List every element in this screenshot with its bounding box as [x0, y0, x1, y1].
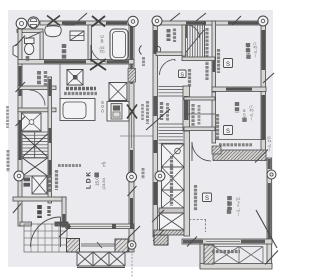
deck edge rail between pillars — [81, 242, 115, 248]
wall: stairs right wall — [48, 77, 52, 203]
deck lattice fence — [77, 252, 125, 268]
S box hall + fire alarm text — [179, 70, 187, 78]
paper (light gray scan background) — [8, 10, 273, 267]
toilet — [25, 38, 35, 55]
loop mark on 2F left wall — [154, 46, 160, 52]
text: クローゼット vertical lower closet — [170, 156, 173, 206]
wall: hall bottom wall — [13, 197, 66, 201]
door arc: bathroom — [91, 45, 108, 62]
column circle on 2F left wall — [155, 171, 165, 181]
text: クローゼット vertical — [205, 28, 208, 80]
brace tick below circle right wall — [128, 186, 137, 196]
kitchen zone boundary line — [59, 64, 61, 99]
washing machine pan — [22, 113, 42, 131]
dimension connector line between plans — [120, 135, 153, 137]
column circle on 1F right wall — [127, 172, 137, 182]
stairs X overlays — [23, 134, 48, 176]
bay window nub left wall — [13, 44, 18, 58]
wall: 2F top wall — [153, 21, 265, 25]
balcony bottom wall — [200, 264, 272, 270]
balcony X pattern — [214, 247, 263, 264]
washbasin oval (corner sink) — [45, 26, 61, 37]
wall: room1 left wall — [212, 21, 216, 92]
svg-text:): ) — [255, 53, 256, 57]
column circle top-left 2F — [152, 16, 162, 26]
text: 床下収納庫(床下点検口) 2 lines — [66, 87, 96, 90]
text: バルコニー — [212, 250, 240, 253]
svg-text:S: S — [226, 62, 230, 68]
porch tile grid — [24, 224, 67, 252]
text: UB (1616) — [100, 34, 105, 53]
svg-text:): ) — [238, 212, 239, 216]
vanity unit — [70, 31, 84, 41]
bathtub — [110, 29, 128, 60]
text: hall label over stairwell — [160, 102, 163, 120]
balcony hatched pillar — [204, 245, 214, 264]
dashed property line bottom — [131, 250, 133, 278]
deck pillar left — [67, 239, 80, 253]
svg-text:16): 16) — [100, 49, 105, 53]
2F stairs upper (vertical treads) — [186, 25, 204, 57]
wall: laundry lower wall — [18, 86, 56, 90]
text: 洋室 4.5帖 (7.45m2) room2 — [235, 102, 239, 113]
column circle deck right — [128, 241, 136, 249]
text: 玄関ホール (1.66m2) two cols — [48, 175, 52, 193]
column circle right wall 2F — [267, 170, 276, 179]
svg-text:(24.84: (24.84 — [101, 177, 106, 189]
window X mark on bath top wall — [92, 16, 105, 27]
deck pillar right — [115, 239, 128, 252]
text: 納戸 (1.77m2) — [167, 29, 171, 41]
wall: genkan bottom wall — [20, 222, 32, 226]
svg-text:S: S — [226, 129, 230, 135]
room2: fire alarm text + S box — [216, 114, 219, 139]
svg-text:): ) — [269, 147, 270, 151]
window X mark on bath bottom wall — [90, 59, 106, 70]
wall: nando right — [182, 25, 186, 56]
kitchen counter with sink — [60, 99, 95, 121]
long diagonal over right wall — [256, 210, 277, 248]
text: 玄関 dark — [37, 205, 42, 218]
large X box (pantry/void) — [109, 83, 127, 101]
hose bib squiggle outside right wall — [139, 46, 141, 55]
entrance door arc — [60, 217, 62, 247]
2F stairwell treads — [159, 86, 184, 143]
window X mark over top wall (laundry) — [47, 16, 60, 26]
text: 洋室 4.5帖 (7.45m2) room1 — [246, 43, 250, 54]
closet X box upper — [159, 144, 184, 213]
text: クローゼット horizontal — [219, 143, 252, 146]
wall: nando bottom — [156, 52, 186, 56]
text: 洋室 7.0帖 (11.59m2) room3 — [227, 196, 232, 210]
wall: stairs right / closet divider — [204, 21, 206, 57]
stairs 1F — [23, 132, 48, 158]
room3: fire alarm + S box — [194, 185, 197, 211]
wall: closet bottom hatched — [213, 150, 266, 161]
brace ticks 2F — [152, 13, 274, 241]
wall: hall top (below stairs) — [182, 57, 215, 61]
svg-text:B: B — [100, 39, 103, 44]
balcony left wall — [200, 244, 204, 268]
wall: genkan right wall — [62, 197, 66, 227]
wall: 2F right outer wall lower — [267, 158, 272, 268]
door arc closet lower — [192, 142, 211, 161]
tiny text left of 2F nando — [142, 57, 145, 66]
column circle top-right 2F — [258, 16, 268, 26]
text: 洗面所 (vertical blobs) — [62, 44, 67, 60]
svg-text:LDK: LDK — [86, 170, 93, 189]
wall: oshiire top — [184, 97, 215, 100]
hatched wall piece on 1F right wall below bath — [128, 69, 136, 83]
text: クローゼット small row above LDK — [58, 164, 81, 167]
corner hatch bottom-left 2F — [154, 235, 168, 245]
column circle 1F top-right corner — [128, 16, 138, 26]
door arc hall — [160, 60, 176, 76]
svg-text:): ) — [251, 116, 252, 120]
wall: washroom/bath divider — [88, 25, 92, 60]
wall: rooms 1/2 divider — [212, 87, 266, 91]
wall: 1F top wall main — [40, 21, 135, 25]
wall: 1F toilet top wall — [17, 29, 43, 32]
wall: 2F bottom wall — [182, 239, 272, 244]
column circle on left wall (stairs) — [14, 171, 24, 181]
text: 800 vertical — [101, 100, 104, 113]
oshiire middle line + text — [184, 113, 215, 115]
floor storage hatch box — [67, 70, 83, 86]
kitchen stove unit — [107, 102, 129, 122]
wall: oshiire left — [183, 86, 190, 131]
wall: 1F left outer wall — [18, 29, 22, 226]
column circle top-left 1 — [16, 18, 27, 29]
wall: 2F left outer wall — [153, 25, 158, 237]
column circle top-left 2 (fan) — [28, 17, 39, 28]
wall: 1F right outer wall — [129, 21, 134, 252]
text: left margin tiny vertical — [7, 150, 10, 172]
wall: closet strip right wall — [184, 131, 190, 236]
wall: 1F washroom/kitchen divider (horizontal) — [18, 60, 134, 65]
room1: fire alarm text + S box — [217, 49, 220, 73]
svg-text:15.0: 15.0 — [95, 177, 100, 186]
text: 脱衣室 labels — [37, 71, 41, 85]
wall: oshiire bottom — [184, 127, 215, 131]
svg-text:S: S — [205, 196, 209, 202]
brace tick marks 1F — [13, 13, 140, 238]
wall: LDK bottom wall with window — [66, 224, 134, 229]
wall: closet strip bottom — [154, 230, 186, 235]
shoe cabinet X box — [32, 176, 47, 194]
dashed area boundary in room3 — [189, 219, 206, 221]
closet X box lower — [160, 213, 185, 230]
closet row: top line — [215, 139, 262, 141]
door arc nando closet — [186, 25, 188, 39]
wall: 2F right outer wall upper — [261, 21, 266, 160]
window X mark on 1F right wall — [127, 105, 137, 119]
svg-text:S: S — [180, 72, 184, 78]
text: (0.74m2) vertical right — [267, 136, 271, 151]
wall: toilet right wall — [40, 32, 43, 60]
stair arrow diagonal — [146, 109, 170, 130]
svg-text:㎡): ㎡) — [100, 161, 106, 167]
tiny text outside 2F left wall — [142, 168, 145, 179]
text: ホール (4.9m2) outside left — [146, 101, 149, 124]
closet row left hatched end — [212, 146, 221, 154]
